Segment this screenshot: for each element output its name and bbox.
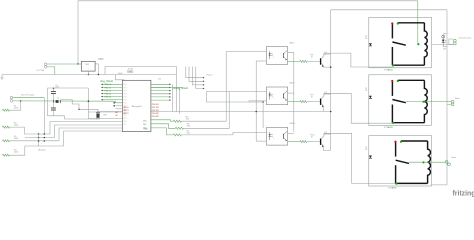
svg-text:Motor: Motor <box>452 156 457 159</box>
svg-text:PC5: PC5 <box>124 100 127 102</box>
wire R3 lead to grid <box>10 140 59 142</box>
junction reg input <box>77 63 79 65</box>
wire motor2 return stub <box>447 104 451 106</box>
node K2 NO contact green <box>422 101 424 103</box>
wire J1 to regulator VIN <box>47 63 81 65</box>
svg-text:BC547: BC547 <box>324 54 331 56</box>
motor M1 LED indicator <box>442 35 444 47</box>
wire y91.5 link <box>206 91 229 93</box>
wire lower crystal route <box>47 116 96 119</box>
resistor R10 base 1k <box>288 141 300 143</box>
crystal Y1 16MHz <box>56 100 59 103</box>
wire xtal to IC XTAL2 <box>98 118 122 120</box>
svg-text:1 T9AS1D: 1 T9AS1D <box>384 126 394 129</box>
wire C1 top tee / xtal top net <box>47 87 88 89</box>
wire y102 extension <box>249 101 263 103</box>
relay K1 symbol <box>398 22 425 24</box>
wire R2 lead to grid <box>10 127 25 134</box>
wire C1 top stub <box>53 88 55 91</box>
transistor Q2 BC547 <box>320 99 322 105</box>
resistor R6 10k <box>151 124 175 129</box>
junction IC pin3 <box>113 105 115 107</box>
capacitor C2 22pF <box>51 107 56 109</box>
svg-text:PC6: PC6 <box>124 103 127 105</box>
wire route right drop x176.5 <box>176 67 178 112</box>
svg-text:PC3: PC3 <box>124 118 127 120</box>
svg-text:7805: 7805 <box>98 58 104 61</box>
wire xtal left leg <box>87 88 89 119</box>
svg-text:PC1: PC1 <box>124 87 127 89</box>
svg-text:Common motor: Common motor <box>458 36 471 39</box>
wire grid row2 to IC <box>25 125 123 138</box>
wire grid vertical x38.5 <box>38 134 40 146</box>
svg-text:4N3 5: 4N3 5 <box>289 42 295 44</box>
wire C2 top stub <box>53 104 55 108</box>
junction C1 top <box>53 88 55 90</box>
svg-text:Analog: Analog <box>39 149 47 152</box>
svg-text:PD1 RX: PD1 RX <box>152 107 160 109</box>
wire C1 bottom stub <box>53 94 55 101</box>
wire R7 to opto3 anode <box>181 132 266 135</box>
junction 5V bus <box>98 74 100 76</box>
wire regulator 5V out <box>95 63 98 65</box>
svg-text:+12 VIN: +12 VIN <box>36 70 44 72</box>
wire C2 bottom stub <box>53 110 55 116</box>
junction regulator gnd <box>88 74 90 76</box>
wire R1 to pin2 net <box>10 101 21 110</box>
wire R4 lead up to grid <box>10 146 25 155</box>
wire grid row4 to IC <box>25 131 123 146</box>
wire regulator GND down <box>88 71 90 74</box>
wire R5 to opto1 anode <box>181 52 266 122</box>
wire 5V route left drop <box>104 67 106 75</box>
svg-text:PB2 D2: PB2 D2 <box>105 90 112 92</box>
IC left lower pin stubs <box>116 105 123 107</box>
wire opto3 cathode stub <box>256 140 266 142</box>
node K2 coil+ red <box>391 80 393 82</box>
resistor R8 base 1k <box>288 60 300 62</box>
svg-text:PB4 D4: PB4 D4 <box>105 97 112 99</box>
wire 5V drop <box>97 64 99 75</box>
resistor R4 100k <box>2 154 9 156</box>
wire from top rail down to relay K1 contact <box>417 1 419 45</box>
transistor Q3 BC547 <box>320 139 322 145</box>
svg-text:Y1: Y1 <box>57 98 59 100</box>
wire opto collector chain <box>288 53 294 132</box>
svg-text:Power: Power <box>207 73 213 76</box>
junction staircase <box>78 109 79 110</box>
svg-text:4N3 5: 4N3 5 <box>289 83 295 85</box>
wire K2 contact to motor2 <box>406 101 451 103</box>
wire grid row3 to IC <box>59 128 122 141</box>
wire to opto2 cathode <box>206 92 266 103</box>
svg-text:100nF: 100nF <box>118 73 124 75</box>
node K2 bottom green <box>392 122 394 124</box>
voltage regulator U2 7805 <box>81 61 95 71</box>
svg-text:5mV 5V Input: 5mV 5V Input <box>21 93 35 96</box>
wire opto1 cathode stub <box>256 60 266 62</box>
wire opto3 collector stub <box>288 133 294 135</box>
crystal Y2 ceramic resonator <box>96 113 99 117</box>
wires with arrows upper-right of IC <box>186 67 203 78</box>
relay K1 box <box>369 17 432 68</box>
svg-text:PB1 D1: PB1 D1 <box>105 87 112 89</box>
IC left pin bus Reg_Shield <box>102 83 123 85</box>
svg-text:PB0 D0: PB0 D0 <box>105 84 112 86</box>
junction grid C2 <box>44 140 46 142</box>
wire x47.4 vertical <box>46 88 48 116</box>
svg-text:4N3 5: 4N3 5 <box>290 123 296 125</box>
node K3 top green <box>400 141 402 143</box>
wire J1 pin2 to ground bus <box>47 67 55 75</box>
node K1 coil+ red <box>391 22 393 24</box>
svg-text:D10: D10 <box>143 121 146 123</box>
wire stub x179.7 <box>179 87 181 113</box>
wire relay K1 to motor1 <box>432 43 453 45</box>
svg-text:PC3: PC3 <box>124 93 127 95</box>
resistor R9 base 1k <box>288 101 300 103</box>
diode D2 flyback <box>369 96 372 99</box>
junction grid C1 <box>38 140 40 142</box>
svg-text:1 T9AS1D: 1 T9AS1D <box>384 68 394 71</box>
junction xtal net <box>88 100 90 102</box>
wire K3 contact to motor3 <box>409 161 445 163</box>
opto-isolator U5 4N35 channel 3 <box>266 127 287 145</box>
svg-text:ADC2: ADC2 <box>124 112 129 115</box>
svg-text:PD3 RX: PD3 RX <box>152 113 160 115</box>
wire ground bus horizontal y74.5 <box>2 74 177 76</box>
wire stub x263.1 <box>262 102 264 128</box>
svg-text:PC5: PC5 <box>124 124 127 126</box>
svg-text:PC4: PC4 <box>124 121 127 123</box>
svg-text:PC2: PC2 <box>124 90 127 92</box>
junction IC pin2 <box>113 102 115 104</box>
wire +12V top rail horizontal <box>78 0 418 2</box>
wire motor3 pin2 stub <box>446 163 449 165</box>
wire ground top horizontal to motor common <box>331 9 447 11</box>
svg-text:A7: A7 <box>116 114 118 117</box>
wire xtal to IC XTAL1 <box>88 111 122 113</box>
junction grid A2 <box>44 133 46 135</box>
svg-text:PD4 RX: PD4 RX <box>152 116 160 118</box>
wire pin1 drop to grid <box>43 98 45 134</box>
wire R6 to opto2 anode <box>183 92 266 129</box>
resistor R1 100k <box>2 109 9 111</box>
relay K3 box <box>369 136 432 187</box>
diode D1 flyback <box>369 43 372 46</box>
node K3 coil+ red <box>394 141 396 143</box>
svg-text:16M: 16M <box>103 114 107 116</box>
relay K2 box <box>369 75 432 126</box>
node K1 NO contact green <box>417 43 419 45</box>
node K2 top green <box>397 80 399 82</box>
junction x263.1 <box>262 101 264 103</box>
svg-text:7805: 7805 <box>85 64 89 66</box>
wire J2 pin1 <box>13 97 44 99</box>
wire J2 pin2 to IC <box>13 101 123 103</box>
junction grid B1 <box>38 137 40 139</box>
connector ICSP header <box>127 70 133 72</box>
svg-text:fritzing: fritzing <box>453 190 474 197</box>
connector J2 control input pins <box>10 96 13 99</box>
wire VCC jog into IC top <box>115 75 124 80</box>
node K3 bottom green <box>395 183 397 185</box>
svg-text:1 T9AS1D: 1 T9AS1D <box>388 187 398 190</box>
svg-text:Atmega48: Atmega48 <box>132 105 143 108</box>
svg-text:D11: D11 <box>143 124 146 126</box>
connector J1 12V input pins <box>44 63 47 66</box>
svg-text:PB3 D3: PB3 D3 <box>105 93 112 95</box>
svg-text:BC547: BC547 <box>324 134 331 136</box>
opto-isolator U3 4N35 channel 1 <box>266 47 287 65</box>
resistor R3 100k <box>2 140 9 142</box>
svg-text:ADC1: ADC1 <box>124 109 129 112</box>
junction rail/gnd <box>330 111 332 113</box>
wire 5V top route <box>105 66 177 68</box>
svg-text:BC547: BC547 <box>324 94 331 96</box>
node K1 top green <box>397 22 399 24</box>
op-amp U1 ATmega328 MCU <box>122 80 150 131</box>
diode D3 flyback <box>369 156 372 159</box>
svg-text:A6: A6 <box>116 111 118 114</box>
junction rail/Q1 <box>330 66 332 68</box>
wire Q2 emitter to gnd <box>322 106 324 112</box>
wire grid row1 to IC <box>24 122 122 134</box>
wire ground rail vertical x331 <box>330 10 332 151</box>
wire +12V down to regulator <box>77 1 79 64</box>
junction cathode/gnd <box>255 111 257 113</box>
relay K3 symbol <box>401 140 428 142</box>
svg-text:PD2 RX: PD2 RX <box>152 110 160 112</box>
svg-text:ADC0: ADC0 <box>124 106 129 109</box>
motor M1 terminal block <box>449 39 453 45</box>
svg-text:GND: GND <box>144 129 149 131</box>
ground symbol at left edge <box>0 75 3 80</box>
svg-text:PC0: PC0 <box>124 84 127 86</box>
transistor Q1 BC547 <box>320 58 322 64</box>
opto-isolator U4 4N35 channel 2 <box>266 87 287 105</box>
wire xtal bottom <box>88 118 98 120</box>
IC right pin bus <box>151 83 171 85</box>
relay K2 symbol <box>398 79 425 81</box>
resistor R7 10k <box>151 128 173 135</box>
junction pin2/R1 <box>20 100 22 102</box>
capacitor C1 22pF <box>51 91 56 93</box>
node K1 bottom green <box>392 64 394 66</box>
resistor R2 100k <box>2 126 9 128</box>
wire K3 coil bottom return <box>431 184 447 186</box>
wire crystal staircase <box>61 100 98 114</box>
wire motor common vertical chain <box>446 10 448 185</box>
wire long ground y111.5 <box>97 111 331 113</box>
svg-text:PD0 RX: PD0 RX <box>152 104 160 106</box>
wire Q1 emitter to rail <box>323 66 330 68</box>
resistor R5 10k <box>151 120 173 121</box>
junction grid B2 <box>44 137 46 139</box>
svg-text:PC4: PC4 <box>124 97 127 99</box>
wire cathode chain vertical <box>255 61 257 141</box>
wire Q3 emitter to rail <box>323 146 330 151</box>
svg-text:Reg_Shield: Reg_Shield <box>101 80 114 83</box>
wire opto2 collector stub <box>288 92 294 94</box>
wire IC pin row2 extended <box>151 86 183 88</box>
wire stub x172.6 <box>172 84 174 111</box>
junction grid A1 <box>38 133 40 135</box>
svg-text:PC2: PC2 <box>124 115 127 117</box>
node K3 NO contact green <box>422 161 424 163</box>
svg-text:Motor: Motor <box>455 97 460 100</box>
